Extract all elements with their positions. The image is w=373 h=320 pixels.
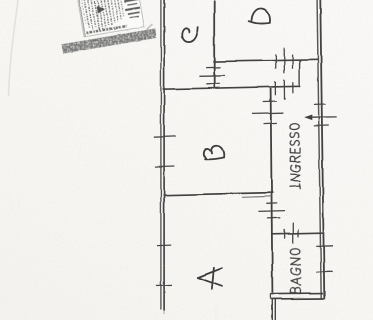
wall top of bagno bbox=[272, 233, 323, 234]
label C bbox=[182, 27, 198, 42]
S bbox=[290, 133, 299, 138]
text INGRESSO (hand-drawn strokes, rotated -90) bbox=[290, 124, 300, 189]
wall small vertical corridor bbox=[299, 61, 301, 87]
label B bbox=[204, 146, 224, 160]
junction ink nubs bbox=[213, 60, 216, 63]
G bbox=[290, 268, 300, 274]
E bbox=[290, 148, 300, 153]
wall C/D bbox=[213, 0, 215, 89]
entrance door tick lower bbox=[314, 125, 329, 127]
stamp (rotated label with barcode) bbox=[50, 0, 156, 54]
door C ticks bbox=[206, 66, 221, 68]
window left wall A (tick 2) bbox=[156, 284, 172, 287]
text BAGNO (hand-drawn strokes, rotated -90) bbox=[290, 249, 301, 294]
floor plan bbox=[154, 0, 337, 320]
O bbox=[290, 249, 300, 255]
I bbox=[290, 184, 300, 189]
label D bbox=[249, 8, 270, 23]
wall bottom of C bbox=[163, 86, 300, 89]
outer left wall (double) bbox=[160, 0, 162, 310]
faint pencil dash top-left of plan bbox=[147, 24, 153, 30]
entrance door tick upper bbox=[314, 103, 326, 105]
N bbox=[291, 258, 301, 265]
left wall fading tail bbox=[163, 311, 165, 315]
outer right wall (double) bbox=[317, 0, 321, 299]
door A ticks bbox=[266, 202, 277, 204]
stamp bottom text row bbox=[86, 26, 126, 33]
window right wall bagno (tick 1) bbox=[316, 245, 333, 248]
window right wall bagno (tick 2) bbox=[316, 271, 332, 274]
stamp grey band bbox=[61, 29, 156, 54]
N bbox=[290, 174, 300, 181]
wall bottom of D bbox=[214, 60, 318, 62]
S bbox=[290, 140, 299, 145]
entrance arrow bbox=[310, 116, 338, 118]
R bbox=[290, 156, 300, 162]
stamp barcode bbox=[119, 0, 142, 18]
G bbox=[290, 165, 300, 171]
faint paper crease top-left bbox=[9, 0, 19, 96]
faint ghost line bottom left bbox=[215, 306, 217, 320]
room labels bbox=[182, 8, 270, 288]
A bbox=[290, 277, 301, 284]
window left wall A (tick 1) bbox=[157, 244, 171, 247]
stamp text columns bbox=[78, 0, 125, 32]
wall B/A echo stroke bbox=[242, 196, 273, 197]
B bbox=[290, 288, 300, 294]
O bbox=[290, 124, 300, 130]
stamp label bbox=[74, 0, 145, 37]
window left wall B (tick 2) bbox=[154, 166, 174, 169]
stamp dense blob bbox=[97, 4, 106, 13]
door corridor ticks bbox=[274, 81, 276, 95]
window left wall B (tick 1) bbox=[154, 135, 176, 138]
wall below bagno (double) bbox=[271, 299, 273, 320]
label A bbox=[198, 268, 222, 277]
door B ticks bbox=[263, 101, 277, 103]
door bagno ticks bbox=[284, 229, 286, 239]
wall B/A bbox=[164, 193, 273, 196]
wall ingresso left bbox=[271, 88, 273, 293]
door D ticks bbox=[275, 54, 277, 68]
wall bottom of bagno (double) bbox=[271, 292, 324, 295]
